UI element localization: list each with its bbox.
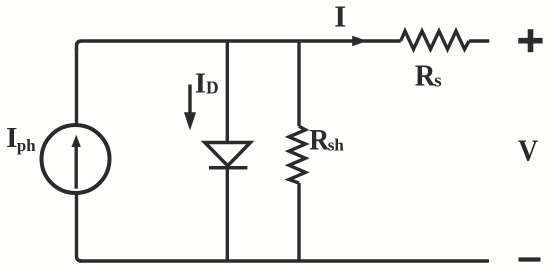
wire diode branch top <box>226 41 229 143</box>
svg-text:R: R <box>415 59 436 93</box>
label ID <box>195 68 219 100</box>
svg-text:I: I <box>195 68 206 100</box>
wire Rsh branch top <box>297 41 300 126</box>
svg-text:D: D <box>206 78 219 98</box>
svg-text:I: I <box>334 0 346 33</box>
svg-text:sh: sh <box>328 136 345 155</box>
svg-text:ph: ph <box>17 136 36 155</box>
svg-text:V: V <box>518 134 538 168</box>
current arrow ID <box>184 85 196 131</box>
resistor Rs <box>401 31 469 49</box>
wire bottom rail <box>79 259 489 262</box>
current source U1 circle <box>42 125 110 193</box>
wire top rail <box>77 41 401 50</box>
diode D1 <box>205 143 251 168</box>
label Rs <box>415 59 442 93</box>
resistor Rsh <box>289 126 306 183</box>
wire left branch upper <box>75 48 78 127</box>
svg-text:I: I <box>6 122 17 154</box>
svg-text:s: s <box>434 70 441 91</box>
terminal plus <box>518 29 542 52</box>
wire output lead <box>469 39 489 42</box>
current source arrow <box>72 135 81 189</box>
wire Rsh branch bottom <box>297 183 300 261</box>
wire diode branch bottom <box>226 168 229 261</box>
label Rsh <box>309 123 344 156</box>
current arrow I on output wire <box>352 36 367 47</box>
terminal minus <box>519 257 541 261</box>
label Iph <box>6 122 36 155</box>
wire left branch lower <box>77 192 82 261</box>
